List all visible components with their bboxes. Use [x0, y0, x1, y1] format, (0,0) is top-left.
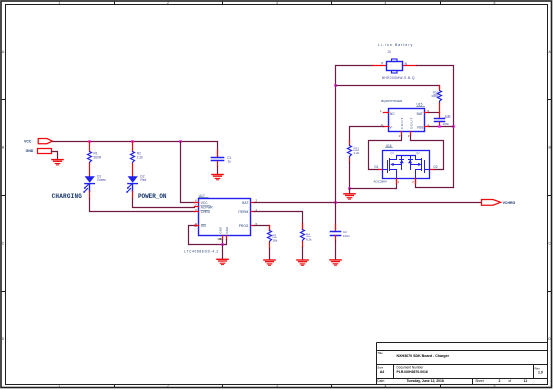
port VCC — [24, 139, 52, 144]
wire junction to ground — [349, 189, 351, 194]
wire VCC rail — [53, 141, 218, 143]
no-connect marker — [217, 238, 222, 240]
transistor-protector U15 BQ29707 — [380, 99, 430, 138]
transistor Q1 — [383, 151, 404, 178]
capacitor C40 — [435, 113, 451, 127]
pin S1 — [396, 179, 398, 184]
svg-text:8.2k: 8.2k — [306, 237, 312, 241]
svg-text:CHARGING: CHARGING — [52, 193, 83, 200]
svg-text:2.2k: 2.2k — [354, 151, 360, 155]
wire PROG to R3 — [255, 226, 270, 231]
wire VCC drop to U17 pin6 — [181, 142, 195, 203]
pin 6 VCC — [195, 202, 199, 204]
svg-text:1: 1 — [59, 1, 61, 5]
svg-text:18k: 18k — [273, 238, 278, 242]
pin 4 GND — [222, 236, 224, 240]
svg-text:PLR-NXH3670-0016: PLR-NXH3670-0016 — [397, 370, 428, 374]
svg-text:2: 2 — [167, 384, 169, 388]
pin 8 EN — [195, 225, 199, 227]
wire DOUT to G2 — [411, 136, 444, 170]
svg-text:NXH3670 SDK Board - Charger: NXH3670 SDK Board - Charger — [397, 354, 450, 358]
wire battery N to right vertical — [417, 66, 454, 188]
capacitor C2 — [331, 203, 351, 260]
svg-text:3: 3 — [276, 1, 278, 5]
wire VSS line — [430, 126, 454, 128]
wire S1 net — [350, 181, 397, 189]
svg-text:5: 5 — [494, 1, 496, 5]
pin 5 PROG — [252, 225, 255, 227]
svg-text:Red: Red — [140, 178, 146, 182]
wire GND port to ground — [52, 152, 58, 160]
pin 3 CHRG — [195, 211, 199, 213]
resistor R30 — [431, 86, 441, 113]
ground (C1) — [212, 175, 223, 180]
svg-text:LTC4088EDD-4.2: LTC4088EDD-4.2 — [184, 250, 218, 254]
svg-text:11: 11 — [524, 379, 528, 383]
svg-text:VCC: VCC — [24, 139, 32, 143]
node junction GND/EN — [221, 243, 224, 246]
svg-text:GND: GND — [26, 149, 34, 153]
op-amp U17 charger LTC4088 — [184, 194, 257, 254]
svg-text:3: 3 — [276, 384, 278, 388]
pin 1 NC — [384, 112, 389, 114]
resistor R4 — [301, 224, 313, 248]
ground (R3) — [264, 260, 275, 265]
port GND — [26, 149, 52, 154]
ground (GND port) — [52, 160, 63, 165]
svg-text:AOC2804: AOC2804 — [374, 180, 388, 184]
resistor R1 — [88, 142, 102, 177]
wire battery left vertical — [336, 66, 373, 203]
svg-text:V-: V- — [389, 126, 392, 130]
svg-text:R4: R4 — [306, 233, 310, 237]
svg-text:G2: G2 — [433, 165, 437, 169]
capacitor C1 — [212, 142, 232, 175]
TITLE BLOCK — [377, 343, 548, 385]
svg-text:R3: R3 — [273, 234, 277, 238]
wire S2 net — [416, 181, 454, 188]
ground (U17) — [217, 259, 228, 264]
LED D1 — [83, 174, 106, 193]
svg-text:2: 2 — [499, 379, 501, 383]
svg-text:of: of — [509, 379, 512, 383]
wire D2 to U17 pin7 (ACPWR) — [132, 192, 134, 199]
pin 3 COUT — [401, 132, 403, 136]
svg-text:4: 4 — [385, 1, 387, 5]
ground (R4) — [297, 260, 308, 265]
wire V- to R31 — [350, 127, 384, 142]
pin 6 V- — [384, 126, 389, 128]
common drain bus — [397, 155, 416, 157]
svg-text:G1: G1 — [374, 165, 378, 169]
svg-text:BAT: BAT — [417, 112, 423, 116]
svg-text:1: 1 — [59, 384, 61, 388]
resistor R2 — [131, 142, 144, 177]
wire D1 to U17 pin3 (CHRG) — [89, 192, 91, 199]
svg-text:PROG: PROG — [239, 224, 249, 228]
wire ITERM to R4 — [255, 212, 303, 230]
svg-text:J3: J3 — [387, 50, 391, 54]
svg-text:P: P — [381, 62, 383, 66]
pin 9 GND — [226, 236, 228, 240]
svg-text:Q1: Q1 — [390, 151, 394, 155]
wire BAT rail to VCHRG — [255, 202, 482, 204]
svg-text:GND: GND — [225, 227, 229, 234]
svg-text:2: 2 — [167, 1, 169, 5]
svg-text:ACPWR: ACPWR — [201, 206, 214, 210]
svg-text:GND: GND — [218, 227, 222, 234]
svg-text:BAT: BAT — [242, 201, 248, 205]
svg-text:VCHRG: VCHRG — [503, 201, 516, 205]
svg-text:R31: R31 — [354, 146, 360, 150]
svg-text:U15: U15 — [417, 103, 423, 107]
svg-text:BQ29707DSER: BQ29707DSER — [381, 99, 403, 103]
svg-text:Q2: Q2 — [416, 151, 420, 155]
node junction battery+/R30 — [334, 84, 337, 87]
svg-text:POWER_ON: POWER_ON — [138, 193, 167, 200]
node junction U17pin6/VCC — [179, 140, 182, 143]
svg-text:100n: 100n — [442, 122, 449, 126]
svg-text:VCC: VCC — [201, 201, 208, 205]
svg-text:A4: A4 — [380, 370, 385, 374]
svg-text:Sheet: Sheet — [475, 379, 483, 383]
svg-text:BHR200MW-S.B-Q: BHR200MW-S.B-Q — [382, 76, 415, 80]
svg-text:Green: Green — [97, 178, 106, 182]
svg-text:COUT: COUT — [400, 118, 404, 129]
wire COUT to G1 — [369, 136, 402, 170]
battery connector J3 — [373, 43, 417, 80]
svg-text:1u: 1u — [227, 160, 231, 164]
node junction R2/VCC — [131, 140, 134, 143]
node junction R31/S1 — [348, 187, 351, 190]
svg-text:4: 4 — [385, 384, 387, 388]
svg-text:Title: Title — [377, 351, 383, 355]
svg-text:Tuesday, June 12, 2018: Tuesday, June 12, 2018 — [407, 379, 444, 383]
port VCHRG — [482, 200, 516, 206]
svg-text:ITERM: ITERM — [238, 210, 248, 214]
resistor R31 — [348, 141, 360, 163]
ground (battery protector) — [344, 194, 355, 199]
node junction BAT/C2 — [334, 201, 337, 204]
node junction VSS/right vertical — [452, 125, 455, 128]
resistor R3 — [268, 226, 278, 249]
svg-text:DOUT: DOUT — [409, 118, 413, 129]
svg-text:NC: NC — [390, 112, 395, 116]
svg-text:CHRG: CHRG — [201, 210, 211, 214]
wire R30 branch — [336, 86, 440, 89]
svg-text:1.0: 1.0 — [538, 371, 543, 375]
svg-text:330R: 330R — [431, 94, 439, 98]
transistor pair U16 AOC2804 — [374, 144, 438, 184]
wire BAT pin to R30/C40 — [429, 112, 440, 114]
pin S2 — [415, 179, 417, 184]
pin 7 ACPWR — [195, 206, 199, 208]
pin 2 BAT — [252, 202, 255, 204]
transistor Q2 — [408, 151, 429, 178]
LED D2 — [126, 174, 146, 193]
pin 2 DOUT — [410, 132, 412, 136]
pin 1 ITERM — [252, 211, 255, 213]
ground (C2) — [330, 260, 341, 265]
svg-text:100n: 100n — [343, 234, 350, 238]
svg-text:2.2k: 2.2k — [137, 155, 143, 159]
wire EN loop — [189, 226, 227, 245]
node junction C40/VSS — [438, 125, 441, 128]
wire R31 to ground junction — [349, 163, 351, 189]
svg-text:Li-ion Battery: Li-ion Battery — [378, 43, 413, 47]
svg-text:560R: 560R — [94, 155, 102, 159]
svg-text:VSS: VSS — [417, 126, 424, 130]
svg-text:5: 5 — [494, 384, 496, 388]
wire to ground (U17) — [222, 245, 224, 259]
node junction R1/VCC — [88, 140, 91, 143]
pin 4 VSS — [425, 126, 430, 128]
svg-text:Date:: Date: — [377, 379, 385, 383]
svg-text:EN: EN — [201, 224, 206, 228]
pin 5 BAT — [425, 112, 429, 114]
svg-text:Document Number: Document Number — [397, 365, 425, 369]
